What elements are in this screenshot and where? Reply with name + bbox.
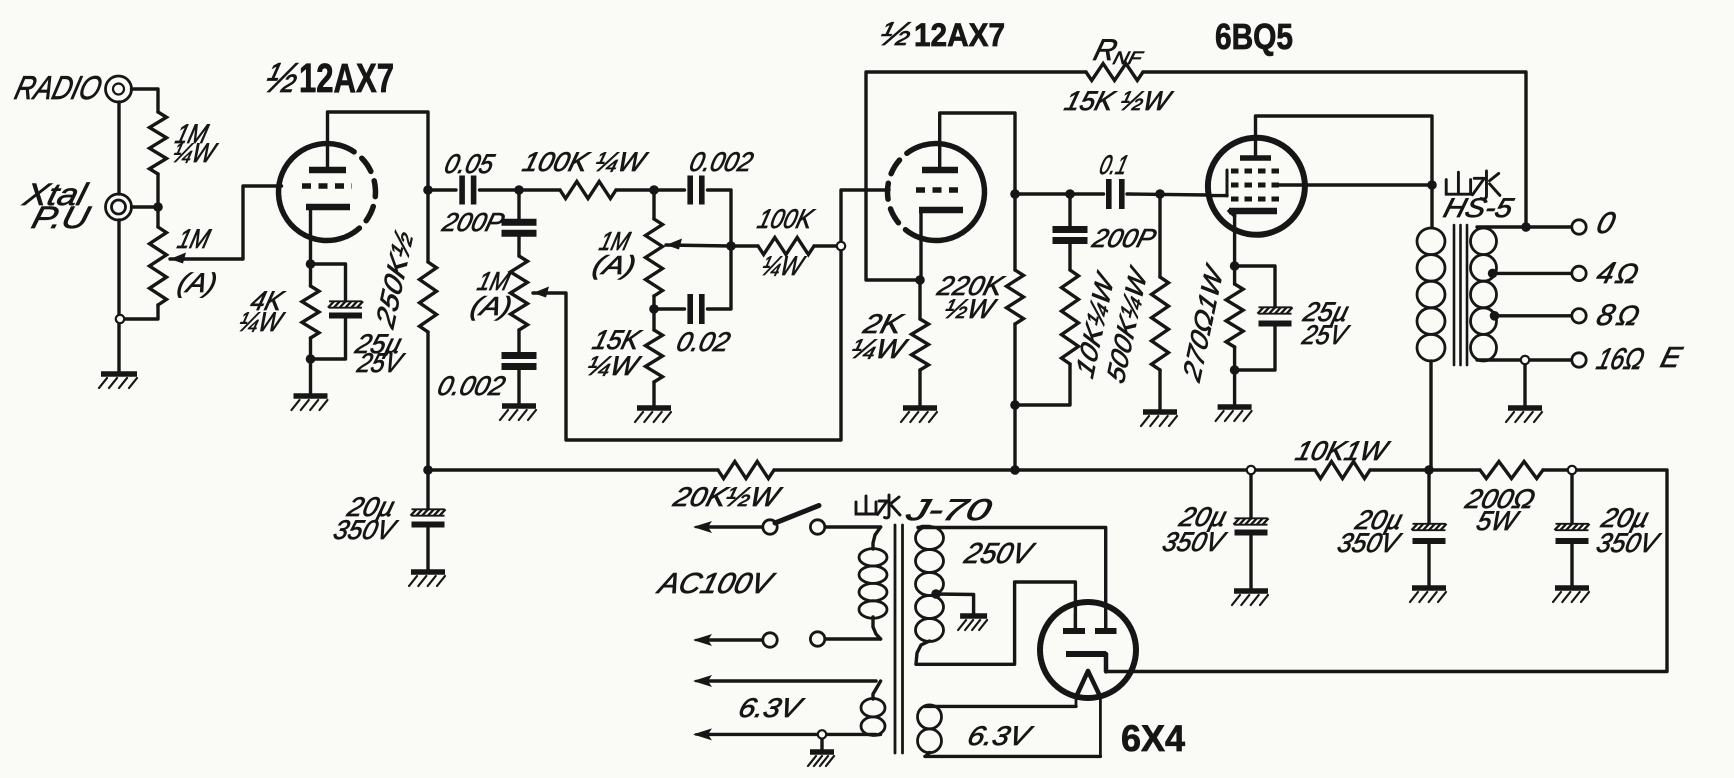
svg-text:350V: 350V [1334,527,1405,557]
svg-text:6.3V: 6.3V [964,720,1036,750]
svg-text:0.002: 0.002 [686,146,756,176]
svg-text:6BQ5: 6BQ5 [1215,16,1293,57]
svg-text:20K½W: 20K½W [669,481,785,511]
svg-text:15K ½W: 15K ½W [1061,85,1176,115]
svg-text:12AX7: 12AX7 [914,17,1005,53]
svg-text:250V: 250V [960,537,1038,569]
svg-text:100K: 100K [754,203,818,233]
svg-text:HS-5: HS-5 [1440,192,1517,222]
svg-text:(A): (A) [467,291,515,320]
svg-text:AC100V: AC100V [653,567,778,599]
svg-text:6.3V: 6.3V [735,692,807,722]
svg-text:100K ¼W: 100K ¼W [519,146,651,176]
svg-text:200P: 200P [1088,223,1159,252]
svg-text:12AX7: 12AX7 [299,55,394,101]
svg-text:0.02: 0.02 [673,326,733,356]
svg-text:350V: 350V [330,514,401,544]
svg-text:350V: 350V [1593,527,1664,557]
svg-text:16Ω: 16Ω [1593,342,1648,375]
svg-text:P.U: P.U [28,200,94,235]
svg-text:J-70: J-70 [902,493,995,526]
svg-text:0.05: 0.05 [441,148,498,178]
svg-text:RADIO: RADIO [11,71,106,107]
svg-text:200P: 200P [438,207,507,236]
svg-text:0.002: 0.002 [434,370,508,400]
svg-text:(A): (A) [589,250,639,279]
svg-text:6X4: 6X4 [1121,718,1185,759]
svg-text:350V: 350V [1159,526,1230,556]
svg-text:10K1W: 10K1W [1292,435,1393,465]
